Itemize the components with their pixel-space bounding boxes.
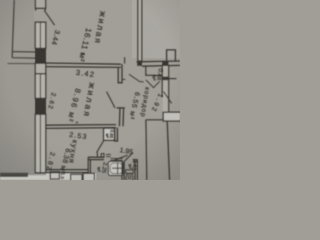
dark wall pier y98-114 [35, 98, 46, 114]
corridor/kitchen wall below partition [114, 128, 116, 141]
door swing chevron at corridor top [129, 74, 144, 82]
toilet [126, 170, 133, 174]
bathroom left wall [87, 157, 89, 180]
door jamb tick right of corridor wall [122, 78, 125, 80]
corridor bottom-right boundary [146, 119, 164, 121]
window W2 (room 8.96) [35, 74, 45, 99]
closet door diagonal [146, 80, 160, 88]
balcony outline left-top [12, 0, 14, 58]
kitchen door leaf [97, 140, 104, 152]
dark band bottom-left (scan edge) [0, 173, 28, 177]
bathroom/WC divider wall [121, 161, 123, 180]
WC door leaf [125, 153, 133, 161]
partition between room 8.96 and kitchen [46, 124, 116, 127]
jamb tick at door to room 16.11 [124, 57, 126, 63]
right outer wall [163, 66, 169, 112]
corridor left wall upper segment [117, 67, 119, 83]
kitchen bottom wall [46, 169, 89, 171]
lighter patch top-right [132, 0, 180, 58]
bathtub [108, 161, 123, 175]
white strip below kitchen bottom wall [46, 173, 96, 180]
speck above partition2 [76, 122, 79, 124]
film grain [0, 0, 180, 180]
door leaf room 8.96 [107, 92, 115, 108]
dark junction blob [137, 61, 142, 66]
window W3 (kitchen, long) [35, 114, 45, 173]
bathroom block top wall [88, 156, 104, 158]
bathroom door leaf [114, 155, 127, 160]
vignette [0, 0, 180, 180]
right wall of room 16.11 (double) [138, 0, 142, 61]
left outer wall: balcony door head section [35, 0, 45, 8]
WC right wall [134, 161, 136, 180]
washbasin boxes below kitchen [83, 173, 94, 181]
vent/storage box in kitchen corner [104, 128, 115, 140]
wall piece above bathtub [111, 158, 123, 160]
wall below pillar [167, 121, 169, 180]
WC door jamb [133, 159, 138, 161]
entrance door leaf [164, 92, 172, 104]
entrance pillar block [163, 112, 181, 121]
kitchen stove box [50, 172, 59, 179]
closet left wall [145, 65, 147, 75]
left edge shade [0, 0, 34, 180]
balcony door jamb ticks [35, 8, 37, 10]
dark wall pier y48-74 [35, 48, 46, 63]
jamb below door (corridor wall resumes) [117, 107, 125, 109]
room labels [44, 10, 163, 179]
junction blobs on right wall [162, 61, 168, 66]
speck above partition [81, 52, 84, 54]
partition between room 16.11 and room 8.96 / corridor top wall [46, 63, 121, 64]
window W1 (room 16.11) [35, 22, 45, 48]
closet bottom / landing line [145, 74, 162, 76]
kitchen door jamb tick [106, 153, 111, 155]
balcony door swing [44, 10, 54, 25]
top-right wall to building edge [137, 60, 180, 63]
scan paper background [0, 0, 180, 180]
pillar bump above top-right wall [167, 50, 176, 62]
